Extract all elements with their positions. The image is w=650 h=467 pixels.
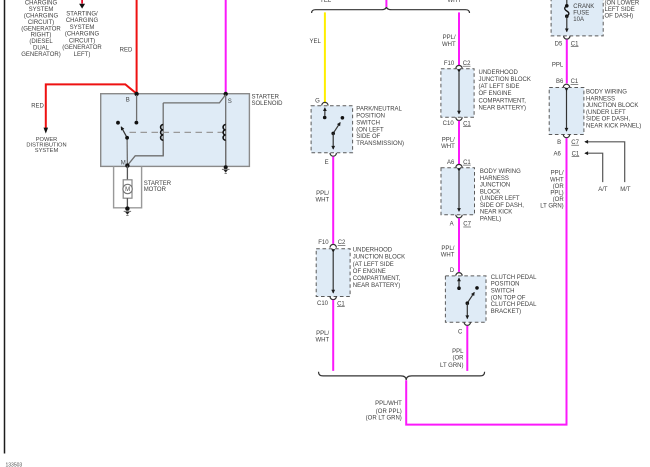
svg-text:D: D bbox=[450, 268, 455, 274]
svg-text:A/T: A/T bbox=[598, 187, 608, 193]
svg-text:S: S bbox=[228, 99, 232, 105]
svg-text:HARNESS: HARNESS bbox=[586, 96, 615, 102]
svg-text:PPL/: PPL/ bbox=[316, 191, 329, 197]
svg-text:CRANK: CRANK bbox=[573, 4, 594, 10]
svg-text:(OR: (OR bbox=[553, 184, 565, 190]
svg-text:CLUTCH PEDAL: CLUTCH PEDAL bbox=[491, 302, 537, 308]
svg-text:PPL/: PPL/ bbox=[441, 246, 454, 252]
svg-text:C: C bbox=[458, 329, 463, 335]
svg-text:BRACKET): BRACKET) bbox=[491, 309, 521, 315]
svg-text:B: B bbox=[126, 98, 130, 104]
svg-text:C10: C10 bbox=[443, 121, 455, 127]
svg-text:B: B bbox=[557, 140, 561, 146]
svg-text:WHT: WHT bbox=[316, 337, 330, 343]
svg-text:SYSTEM: SYSTEM bbox=[70, 25, 95, 31]
svg-text:COMPARTMENT,: COMPARTMENT, bbox=[479, 98, 527, 104]
svg-text:BLOCK: BLOCK bbox=[480, 189, 500, 195]
svg-text:PPL/: PPL/ bbox=[316, 331, 329, 337]
svg-text:NEAR KICK PANEL): NEAR KICK PANEL) bbox=[586, 123, 641, 129]
svg-text:UNDERHOOD: UNDERHOOD bbox=[479, 70, 519, 76]
svg-text:HARNESS: HARNESS bbox=[480, 176, 509, 182]
svg-text:(ON LOWER: (ON LOWER bbox=[605, 0, 640, 6]
svg-text:CHARGING: CHARGING bbox=[25, 1, 58, 7]
svg-text:PPL/: PPL/ bbox=[443, 35, 456, 41]
svg-text:SIDE OF DASH,: SIDE OF DASH, bbox=[586, 117, 630, 123]
svg-text:NEAR BATTERY): NEAR BATTERY) bbox=[479, 105, 526, 111]
svg-text:NEAR KICK: NEAR KICK bbox=[480, 210, 512, 216]
svg-text:C2: C2 bbox=[463, 61, 471, 67]
svg-text:(UNDER LEFT: (UNDER LEFT bbox=[480, 196, 520, 202]
svg-text:(ON LEFT: (ON LEFT bbox=[356, 127, 384, 133]
svg-text:(OR: (OR bbox=[553, 197, 565, 203]
svg-text:B6: B6 bbox=[556, 79, 564, 85]
svg-text:YEL: YEL bbox=[309, 39, 321, 45]
svg-text:STARTER: STARTER bbox=[144, 181, 172, 187]
svg-text:SWITCH: SWITCH bbox=[356, 120, 380, 126]
svg-text:RED: RED bbox=[31, 104, 44, 110]
svg-text:E: E bbox=[325, 160, 329, 166]
svg-text:POSITION: POSITION bbox=[356, 114, 385, 120]
svg-text:WHT: WHT bbox=[442, 42, 456, 48]
svg-text:(GENERATOR: (GENERATOR bbox=[62, 45, 102, 51]
svg-text:SIDE OF: SIDE OF bbox=[356, 134, 380, 140]
svg-text:LEFT): LEFT) bbox=[74, 52, 91, 58]
svg-text:JUNCTION BLOCK: JUNCTION BLOCK bbox=[479, 77, 531, 83]
svg-text:F10: F10 bbox=[444, 61, 455, 67]
svg-text:C1: C1 bbox=[337, 301, 345, 307]
svg-text:POSITION: POSITION bbox=[491, 282, 520, 288]
svg-text:JUNCTION BLOCK: JUNCTION BLOCK bbox=[353, 255, 405, 261]
svg-text:PARK/NEUTRAL: PARK/NEUTRAL bbox=[356, 107, 402, 113]
svg-text:CLUTCH PEDAL: CLUTCH PEDAL bbox=[491, 275, 537, 281]
svg-text:M: M bbox=[121, 161, 126, 167]
svg-text:(OR PPL): (OR PPL) bbox=[376, 409, 402, 415]
svg-text:MOTOR: MOTOR bbox=[144, 187, 167, 193]
svg-text:G: G bbox=[315, 99, 320, 105]
svg-text:NEAR BATTERY): NEAR BATTERY) bbox=[353, 283, 400, 289]
svg-text:C7: C7 bbox=[463, 222, 471, 228]
svg-text:PPL: PPL bbox=[452, 349, 464, 355]
svg-text:TRANSMISSION): TRANSMISSION) bbox=[356, 141, 404, 147]
svg-text:YEL: YEL bbox=[320, 0, 332, 4]
svg-text:BODY WIRING: BODY WIRING bbox=[586, 90, 627, 96]
svg-text:C1: C1 bbox=[571, 41, 579, 47]
svg-text:FUSE: FUSE bbox=[573, 11, 589, 17]
svg-text:OF ENGINE: OF ENGINE bbox=[479, 91, 512, 97]
svg-text:A6: A6 bbox=[447, 160, 455, 166]
svg-text:UNDERHOOD: UNDERHOOD bbox=[353, 248, 393, 254]
svg-text:OF ENGINE: OF ENGINE bbox=[353, 269, 386, 275]
svg-text:SWITCH: SWITCH bbox=[491, 288, 515, 294]
svg-text:(CHARGING: (CHARGING bbox=[65, 32, 100, 38]
svg-text:WHT: WHT bbox=[441, 144, 455, 150]
svg-text:C1: C1 bbox=[571, 79, 579, 85]
svg-text:C10: C10 bbox=[317, 301, 329, 307]
svg-text:C1: C1 bbox=[463, 121, 471, 127]
svg-text:WHT: WHT bbox=[447, 0, 461, 4]
svg-text:CIRCUIT): CIRCUIT) bbox=[69, 38, 95, 44]
svg-text:(AT LEFT SIDE: (AT LEFT SIDE bbox=[479, 84, 520, 90]
svg-text:(UNDER LEFT: (UNDER LEFT bbox=[586, 110, 626, 116]
svg-text:PPL/: PPL/ bbox=[442, 138, 455, 144]
svg-text:PPL/: PPL/ bbox=[551, 171, 564, 177]
svg-text:RIGHT): RIGHT) bbox=[31, 33, 52, 39]
svg-text:F10: F10 bbox=[318, 240, 329, 246]
svg-text:SYSTEM: SYSTEM bbox=[29, 7, 54, 13]
svg-text:LEFT SIDE: LEFT SIDE bbox=[605, 7, 635, 13]
svg-text:COMPARTMENT,: COMPARTMENT, bbox=[353, 276, 401, 282]
svg-text:C1: C1 bbox=[572, 151, 580, 157]
svg-text:M: M bbox=[125, 187, 130, 193]
svg-text:(OR LT GRN): (OR LT GRN) bbox=[366, 416, 402, 422]
svg-text:PPL: PPL bbox=[552, 62, 564, 68]
svg-text:C7: C7 bbox=[571, 140, 579, 146]
svg-text:A6: A6 bbox=[554, 151, 562, 157]
svg-text:WHT: WHT bbox=[316, 197, 330, 203]
svg-text:133503: 133503 bbox=[6, 463, 23, 467]
svg-text:JUNCTION BLOCK: JUNCTION BLOCK bbox=[586, 103, 638, 109]
svg-text:LT GRN): LT GRN) bbox=[540, 204, 563, 210]
svg-text:10A: 10A bbox=[573, 17, 584, 23]
svg-text:SOLENOID: SOLENOID bbox=[252, 101, 284, 107]
svg-text:M/T: M/T bbox=[620, 187, 631, 193]
svg-text:A: A bbox=[450, 221, 454, 227]
svg-text:C1: C1 bbox=[463, 160, 471, 166]
svg-text:LT GRN): LT GRN) bbox=[440, 363, 463, 369]
svg-text:PPL/WHT: PPL/WHT bbox=[375, 401, 402, 407]
svg-text:RED: RED bbox=[120, 47, 133, 53]
svg-text:WHT: WHT bbox=[550, 177, 564, 183]
svg-text:GENERATOR): GENERATOR) bbox=[21, 52, 60, 58]
svg-text:WHT: WHT bbox=[441, 253, 455, 259]
svg-text:SYSTEM: SYSTEM bbox=[35, 148, 59, 154]
svg-text:D5: D5 bbox=[555, 41, 563, 47]
svg-text:BODY WIRING: BODY WIRING bbox=[480, 169, 521, 175]
svg-text:PPL): PPL) bbox=[550, 191, 563, 197]
svg-text:(DIESEL: (DIESEL bbox=[29, 39, 53, 45]
svg-text:STARTER: STARTER bbox=[252, 95, 280, 101]
svg-text:CIRCUIT): CIRCUIT) bbox=[28, 20, 54, 26]
svg-text:(GENERATOR: (GENERATOR bbox=[21, 26, 61, 32]
svg-text:(ON TOP OF: (ON TOP OF bbox=[491, 295, 526, 301]
svg-text:SIDE OF DASH,: SIDE OF DASH, bbox=[480, 203, 524, 209]
svg-text:JUNCTION: JUNCTION bbox=[480, 183, 510, 189]
svg-text:(CHARGING: (CHARGING bbox=[24, 14, 59, 20]
svg-text:DUAL: DUAL bbox=[33, 46, 50, 52]
svg-text:(AT LEFT SIDE: (AT LEFT SIDE bbox=[353, 262, 394, 268]
svg-text:CHARGING: CHARGING bbox=[66, 18, 99, 24]
svg-text:OF DASH): OF DASH) bbox=[605, 14, 634, 20]
svg-text:(OR: (OR bbox=[453, 356, 465, 362]
svg-text:STARTING/: STARTING/ bbox=[66, 11, 98, 17]
svg-text:PANEL): PANEL) bbox=[480, 216, 501, 222]
svg-text:C2: C2 bbox=[338, 240, 346, 246]
